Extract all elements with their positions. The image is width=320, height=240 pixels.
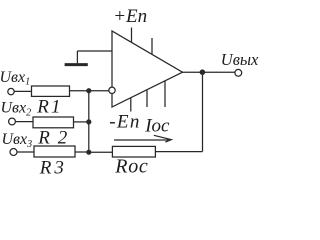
- wire summing bus: [88, 91, 90, 153]
- op-amp U1 triangle: [112, 31, 183, 107]
- resistor R1: [32, 86, 70, 96]
- node junction row1/bus: [86, 88, 91, 93]
- ground: [65, 63, 88, 66]
- wire ground stem: [76, 51, 78, 63]
- wire non-inverting input: [77, 50, 112, 52]
- pin bottom correction 2: [164, 81, 166, 107]
- pin -Ep bottom: [130, 98, 132, 112]
- wire terminal3 to R3: [17, 151, 34, 153]
- input terminal Uвх2: [9, 118, 16, 125]
- wire terminal2 to R2: [15, 121, 33, 123]
- wire op-amp output: [183, 71, 236, 73]
- svg-text:Iос: Iос: [144, 115, 170, 136]
- svg-text:+Еп: +Еп: [113, 6, 147, 27]
- wire R3 to bus: [75, 151, 89, 153]
- input terminal Uвх1: [8, 88, 14, 94]
- pin +Ep top: [131, 28, 133, 43]
- svg-text:R 2: R 2: [37, 128, 69, 149]
- wire terminal1 to R1: [14, 90, 31, 92]
- wire R1 to inverting input: [70, 90, 109, 92]
- svg-text:Uвх2: Uвх2: [1, 100, 32, 119]
- wire bus to Roc: [89, 151, 113, 153]
- input terminal Uвх3: [10, 149, 17, 156]
- svg-text:R1: R1: [36, 97, 63, 118]
- resistor R2: [33, 117, 74, 128]
- op-amp inverting input bubble: [109, 87, 115, 93]
- svg-text:Uвых: Uвых: [221, 50, 259, 69]
- output terminal Uвых: [235, 69, 242, 76]
- node junction row3/bus: [86, 150, 91, 155]
- node junction row2/bus: [86, 119, 91, 124]
- wire Roc to feedback riser: [155, 151, 202, 153]
- svg-text:R3: R3: [39, 157, 67, 178]
- wire R2 to bus: [74, 121, 89, 123]
- svg-text:Uвх3: Uвх3: [2, 131, 33, 150]
- node output junction: [200, 69, 206, 75]
- pin top correction: [151, 38, 153, 54]
- resistor Roc: [112, 146, 155, 157]
- resistor R3: [34, 146, 75, 157]
- pin bottom correction 1: [146, 90, 148, 107]
- wire feedback riser: [202, 72, 204, 151]
- current arrow Ioc: [114, 135, 171, 142]
- svg-text:Rос: Rос: [114, 156, 148, 178]
- svg-text:-Еп: -Еп: [109, 112, 140, 133]
- svg-text:Uвх1: Uвх1: [0, 69, 30, 88]
